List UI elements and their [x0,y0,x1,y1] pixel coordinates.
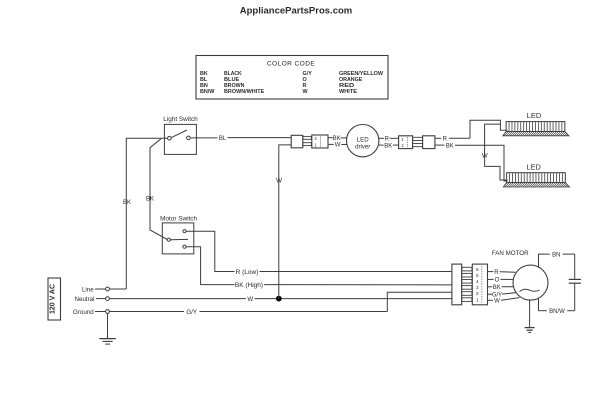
label R motor [494,270,499,276]
wire R to LED 1 [435,120,508,138]
svg-text:R: R [385,137,390,143]
svg-text:driver: driver [355,143,370,150]
svg-text:R: R [443,137,448,143]
svg-text:BK: BK [333,136,341,142]
label W driver-in [335,143,341,149]
svg-text:BL: BL [219,136,227,142]
connector J3 pins [462,267,472,301]
svg-text:6: 6 [476,267,479,272]
label R (Low) [236,269,259,276]
connector J2 housing [423,136,435,149]
svg-text:BK: BK [446,143,454,149]
wire BK motor stub [488,286,514,288]
svg-text:R: R [494,270,499,276]
label BK left [123,200,131,206]
wire BK driver-out [379,144,399,146]
svg-text:BL: BL [200,77,208,83]
wire BK to LED driver [328,137,347,139]
wire W riser to LED connector [279,145,291,299]
capacitor C1 [569,254,581,311]
wire R motor stub [488,271,516,274]
wire R (Low) [186,231,451,271]
svg-text:Line: Line [82,286,94,293]
label BK driver-out [384,143,392,149]
svg-text:BLUE: BLUE [224,77,240,83]
wire O motor stub [488,278,514,280]
svg-text:LED: LED [357,136,369,143]
svg-text:LED: LED [527,163,541,172]
wire Line to BK riser [109,288,126,290]
svg-text:Neutral: Neutral [75,296,95,303]
connector J3 housing [452,264,462,305]
svg-text:BROWN: BROWN [224,83,244,89]
connector J1 housing [291,135,303,148]
wire W between LEDs [485,124,508,180]
svg-text:ORANGE: ORANGE [339,77,363,83]
svg-text:COLOR CODE: COLOR CODE [267,61,316,68]
svg-text:BN: BN [200,83,208,89]
label BL [219,136,227,142]
connector J1 pins [303,136,312,145]
svg-text:2: 2 [476,291,479,296]
svg-text:W: W [482,153,488,160]
wire BK line-to-lightswitch [126,138,167,289]
ground symbol left [99,313,116,344]
label R lamp wire [443,137,448,143]
fan motor M1 [513,265,548,300]
watermark AppliancePartsPros.com [240,6,352,17]
svg-text:W: W [494,299,500,305]
svg-text:BK: BK [146,197,154,203]
svg-text:LED: LED [527,111,541,120]
light switch S1 [164,124,196,154]
svg-text:BK: BK [200,71,208,77]
svg-text:4: 4 [476,279,479,284]
color code table entries [200,71,384,95]
label R driver-out [385,137,390,143]
LED lamp 1 [503,122,569,136]
svg-text:Light Switch: Light Switch [163,116,198,123]
svg-text:BROWN/WHITE: BROWN/WHITE [224,89,265,95]
label BK motor [493,285,501,291]
label G/Y motor [492,292,502,298]
terminal Ground [73,309,109,316]
wire BK to LED 2 [435,145,508,181]
label W motor [494,299,500,305]
svg-text:O: O [495,278,500,284]
svg-text:W: W [247,296,253,303]
connector J1 header [312,135,328,148]
wire BN/W [539,298,575,311]
junction dot W [276,296,281,301]
svg-text:W: W [276,177,282,184]
label BN [552,252,560,258]
light switch label [163,116,198,123]
svg-text:G/Y: G/Y [492,292,502,298]
svg-text:BK (High): BK (High) [235,282,263,289]
fan motor label [492,250,529,257]
label BK driver-in [333,136,341,142]
svg-text:BK: BK [384,143,392,149]
LED lamp 2 [503,173,569,187]
wire W neutral [109,298,451,300]
source 120 V AC box [48,278,61,320]
wire BN [539,254,575,267]
label W between LEDs [482,153,488,160]
terminal Line [82,286,109,293]
LED driver U1 [347,125,379,157]
connector J2 pins [413,137,423,146]
wire BK (High) [186,247,451,285]
svg-text:FAN MOTOR: FAN MOTOR [492,250,529,257]
wire G/Y [109,292,451,311]
ground symbol motor [525,300,535,332]
svg-text:1: 1 [476,297,479,302]
color code table box [196,56,388,100]
svg-text:BLACK: BLACK [224,71,242,77]
svg-text:G/Y: G/Y [303,71,313,77]
svg-text:AppliancePartsPros.com: AppliancePartsPros.com [240,6,352,17]
label O motor [495,278,500,284]
svg-text:WHITE: WHITE [339,89,357,95]
label BK lamp wire [446,143,454,149]
svg-text:BK: BK [493,285,501,291]
wire BL [190,137,291,139]
svg-text:BN/W: BN/W [200,89,215,95]
label BK right [146,197,154,203]
svg-text:O: O [303,77,307,83]
LED lamp 2 label [527,163,541,172]
motor switch label [160,215,197,222]
wire R driver-out [379,137,399,139]
label W neutral [247,296,253,303]
wire W motor stub [488,298,520,301]
terminal Neutral [75,296,110,303]
wire W to LED driver [328,143,347,145]
motor switch S2 [162,223,194,254]
svg-text:GREEN/YELLOW: GREEN/YELLOW [339,71,384,77]
label BN/W [549,309,565,315]
wire G/Y motor stub [488,293,517,295]
label BK (High) [235,282,263,289]
svg-text:120 V AC: 120 V AC [50,284,57,314]
connector J2 header [399,136,413,149]
connector J3 header [472,264,487,305]
svg-text:5: 5 [476,273,479,278]
label G/Y [186,309,197,316]
svg-text:R (Low): R (Low) [236,269,259,276]
wire BK branch to motor switch [150,139,167,240]
svg-text:W: W [335,143,341,149]
svg-text:G/Y: G/Y [186,309,197,316]
svg-text:BN: BN [552,252,560,258]
svg-text:3: 3 [476,285,479,290]
LED lamp 1 label [527,111,541,120]
svg-text:Ground: Ground [73,309,94,316]
label W riser [276,177,282,184]
color code table title [267,61,316,68]
svg-text:BK: BK [123,200,131,206]
svg-text:BN/W: BN/W [549,309,565,315]
svg-text:RED: RED [339,83,354,89]
svg-text:R: R [303,83,307,89]
svg-text:Motor Switch: Motor Switch [160,215,197,222]
